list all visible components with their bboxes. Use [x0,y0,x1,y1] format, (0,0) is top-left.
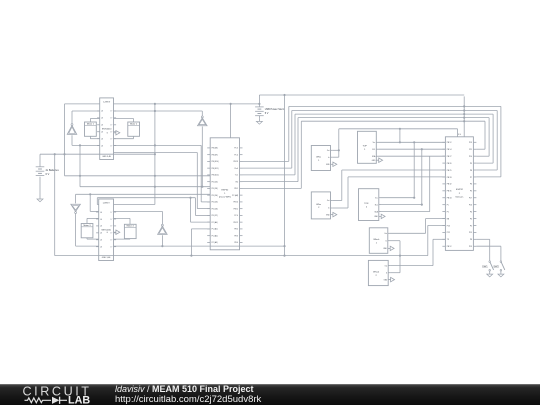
svg-text:LAB: LAB [68,395,90,405]
svg-text:ldavisiv / MEAM 510 Final Proj: ldavisiv / MEAM 510 Final Project [115,384,254,394]
switch SW1 [482,261,493,271]
svg-text:P8: P8 [470,170,472,172]
svg-text:Pn: Pn [447,211,449,213]
svg-text:PB (D11): PB (D11) [212,168,219,170]
wire [230,103,232,138]
wire [201,111,203,116]
wire [114,211,163,224]
svg-text:P7: P7 [470,177,472,179]
wire [97,197,195,205]
svg-text:Motor 3: Motor 3 [83,224,91,227]
svg-text:P0: P0 [470,218,472,220]
svg-text:P9: P9 [470,163,472,165]
svg-text:PD (D2): PD (D2) [212,181,219,183]
wire [87,218,99,223]
wire [90,136,99,138]
svg-text:PB 25: PB 25 [447,170,452,172]
svg-text:PC (A2): PC (A2) [212,234,218,237]
svg-text:PC 5: PC 5 [234,148,238,150]
svg-text:GND 3,4E: GND 3,4E [102,257,111,259]
svg-text:PB (D10): PB (D10) [212,161,219,163]
svg-text:P22: P22 [447,232,450,234]
switch SW2 [493,261,504,271]
svg-text:TOF: TOF [363,146,368,148]
wire [72,110,202,112]
wire [72,135,100,146]
wire [65,175,211,177]
svg-text:5 V: 5 V [265,112,269,115]
svg-text:Whisk: Whisk [373,239,380,241]
svg-text:PB 33: PB 33 [447,177,452,179]
svg-text:PB 4: PB 4 [234,242,238,244]
wire [114,153,211,209]
sensor WHIS2 [311,192,337,219]
svg-text:SCL: SCL [372,149,375,151]
wire [161,235,163,246]
wire [379,148,446,150]
sensor WSK1 [369,228,394,254]
wire [381,142,416,198]
wire [476,246,501,261]
H-bridge driver U2 SN754410 [96,199,116,261]
svg-text:Vcc: Vcc [373,142,376,144]
wire [381,156,430,211]
wire [114,103,156,205]
svg-text:P5: P5 [470,191,472,193]
ground [498,271,504,277]
motor M4 [124,224,136,238]
svg-text:1,2EN V: 1,2EN V [103,202,111,204]
wire [90,194,99,211]
wire [283,94,285,257]
svg-text:SCL: SCL [375,204,378,206]
svg-text:P2: P2 [470,225,472,227]
wire [243,113,494,175]
wire [76,193,211,203]
wire [64,104,66,176]
svg-text:Pv: Pv [447,204,449,206]
svg-text:PC 0: PC 0 [234,215,238,217]
svg-text:Tx 1: Tx 1 [235,175,238,177]
svg-text:GND 3,4E: GND 3,4E [102,156,111,158]
svg-text:PB (D12): PB (D12) [212,175,219,177]
wire [195,198,210,216]
svg-text:1,2EN V: 1,2EN V [103,101,111,103]
svg-text:PC (A4): PC (A4) [232,194,238,197]
svg-text:Rx 0: Rx 0 [235,168,239,170]
svg-text:PC (A0): PC (A0) [212,221,218,224]
wire [55,229,428,257]
wire [333,177,446,208]
wire [40,153,155,155]
svg-text:PB 12: PB 12 [447,142,452,144]
svg-text:http://circuitlab.com/c2j72d5u: http://circuitlab.com/c2j72d5udv8rk [115,394,262,405]
svg-text:PD (D3): PD (D3) [212,188,219,190]
battery B1 [36,154,60,196]
svg-text:PC 4: PC 4 [234,154,238,156]
wire [381,149,423,206]
wire [243,120,486,188]
wire [65,95,465,104]
terminal arrow [107,131,120,135]
svg-text:SW2: SW2 [493,266,499,269]
wire [114,218,131,224]
footer bar [0,384,540,405]
wire [114,238,131,241]
ground [71,204,81,213]
H-bridge driver U1 SN754410 [97,98,116,160]
svg-text:In: In [385,240,386,242]
svg-text:Motor 2: Motor 2 [130,122,138,125]
wire [333,170,446,201]
svg-text:PD (D7): PD (D7) [212,215,219,217]
svg-text:In: In [386,272,387,274]
node VCC [67,124,77,135]
svg-text:PC (A3): PC (A3) [212,241,218,244]
svg-text:P8: P8 [470,239,472,241]
sensor WSK2 [368,260,394,285]
wire [243,105,501,177]
sensor TOF2 [359,189,386,221]
sensor TOF1 [358,131,383,163]
svg-text:P4: P4 [470,211,472,213]
svg-text:Whisk: Whisk [373,271,380,273]
node VCC [198,116,208,126]
wire [54,154,56,255]
svg-text:ESP32: ESP32 [221,189,229,191]
svg-text:PB 34: PB 34 [447,198,452,200]
svg-text:PB 1: PB 1 [234,188,238,190]
svg-text:USB Power Stern: USB Power Stern [265,108,285,111]
svg-text:(micro WiFi): (micro WiFi) [219,196,231,199]
svg-text:PB 35: PB 35 [447,191,452,193]
svg-text:Sensors: Sensors [455,195,464,198]
wire [114,245,286,247]
wire [191,198,211,222]
wire [339,129,458,137]
svg-text:Vcc: Vcc [375,197,378,199]
svg-text:PB 3: PB 3 [234,235,238,237]
svg-text:PD (D6): PD (D6) [212,208,219,210]
svg-text:P13: P13 [469,142,472,144]
svg-text:Motor 4: Motor 4 [127,225,135,228]
MCU U4 ESP32-2 [442,137,476,251]
svg-text:PB 13: PB 13 [233,161,238,163]
svg-text:P17: P17 [469,198,472,200]
svg-text:PB 11: PB 11 [234,208,239,210]
footer title text [115,384,262,405]
node VCC [158,224,168,234]
svg-text:In: In [328,208,329,210]
svg-text:PC (A1): PC (A1) [212,228,218,231]
wire [87,238,99,239]
ground [37,196,43,202]
svg-text:PB 2: PB 2 [234,229,238,231]
wire [476,239,489,261]
svg-text:SW1: SW1 [482,266,488,269]
svg-text:TOF: TOF [364,203,369,205]
ground [487,271,493,277]
wire [390,219,445,234]
svg-text:P23: P23 [447,225,450,227]
svg-text:6 V: 6 V [46,173,50,176]
svg-text:PB 32: PB 32 [447,184,452,186]
svg-text:P10: P10 [469,156,472,158]
svg-text:ESP32: ESP32 [456,189,464,191]
wire [428,225,446,255]
wire [114,119,134,123]
motor M3 [81,224,93,238]
svg-text:PB 10: PB 10 [233,202,238,204]
wire [201,127,203,188]
wire [90,119,99,123]
wire [390,241,401,273]
svg-text:P6: P6 [470,184,472,186]
svg-text:PB 26: PB 26 [447,163,452,165]
wire [243,117,490,182]
svg-text:PD (D4): PD (D4) [212,195,219,197]
motor M2 [128,122,140,136]
svg-text:P16: P16 [469,204,472,206]
svg-text:P15: P15 [469,232,472,234]
wire [458,96,464,136]
svg-text:Motor 1: Motor 1 [87,122,95,125]
wire [114,144,211,202]
MCU U3 ESP32-1 [207,138,242,250]
svg-text:P11: P11 [469,149,472,151]
wire [79,145,210,187]
wire [390,272,400,274]
sensor WHIS1 [311,146,337,171]
svg-text:PB (D9): PB (D9) [212,154,218,156]
svg-text:PB 27: PB 27 [447,156,452,158]
wire [114,136,134,138]
svg-text:PB 12: PB 12 [447,246,452,248]
svg-text:PB 14: PB 14 [447,149,452,151]
motor M1 [85,122,97,136]
svg-text:PD (D5): PD (D5) [212,202,219,204]
wire [379,128,446,144]
wire [76,213,99,246]
svg-text:PB 12: PB 12 [233,222,238,224]
wire [390,239,445,265]
wire [379,155,446,157]
terminal arrow [107,230,120,234]
voltage source V2 USB [255,107,285,119]
svg-text:PB (D8): PB (D8) [212,148,218,150]
CircuitLab logo [23,384,91,405]
wire [258,103,260,107]
svg-text:SN754410: SN754410 [102,129,112,131]
wire [71,111,73,124]
svg-text:P13: P13 [469,246,472,248]
wire [333,129,340,157]
wire [243,109,498,170]
ground [256,118,262,124]
svg-text:In: In [328,157,329,159]
svg-text:4x Batteries: 4x Batteries [46,169,60,172]
